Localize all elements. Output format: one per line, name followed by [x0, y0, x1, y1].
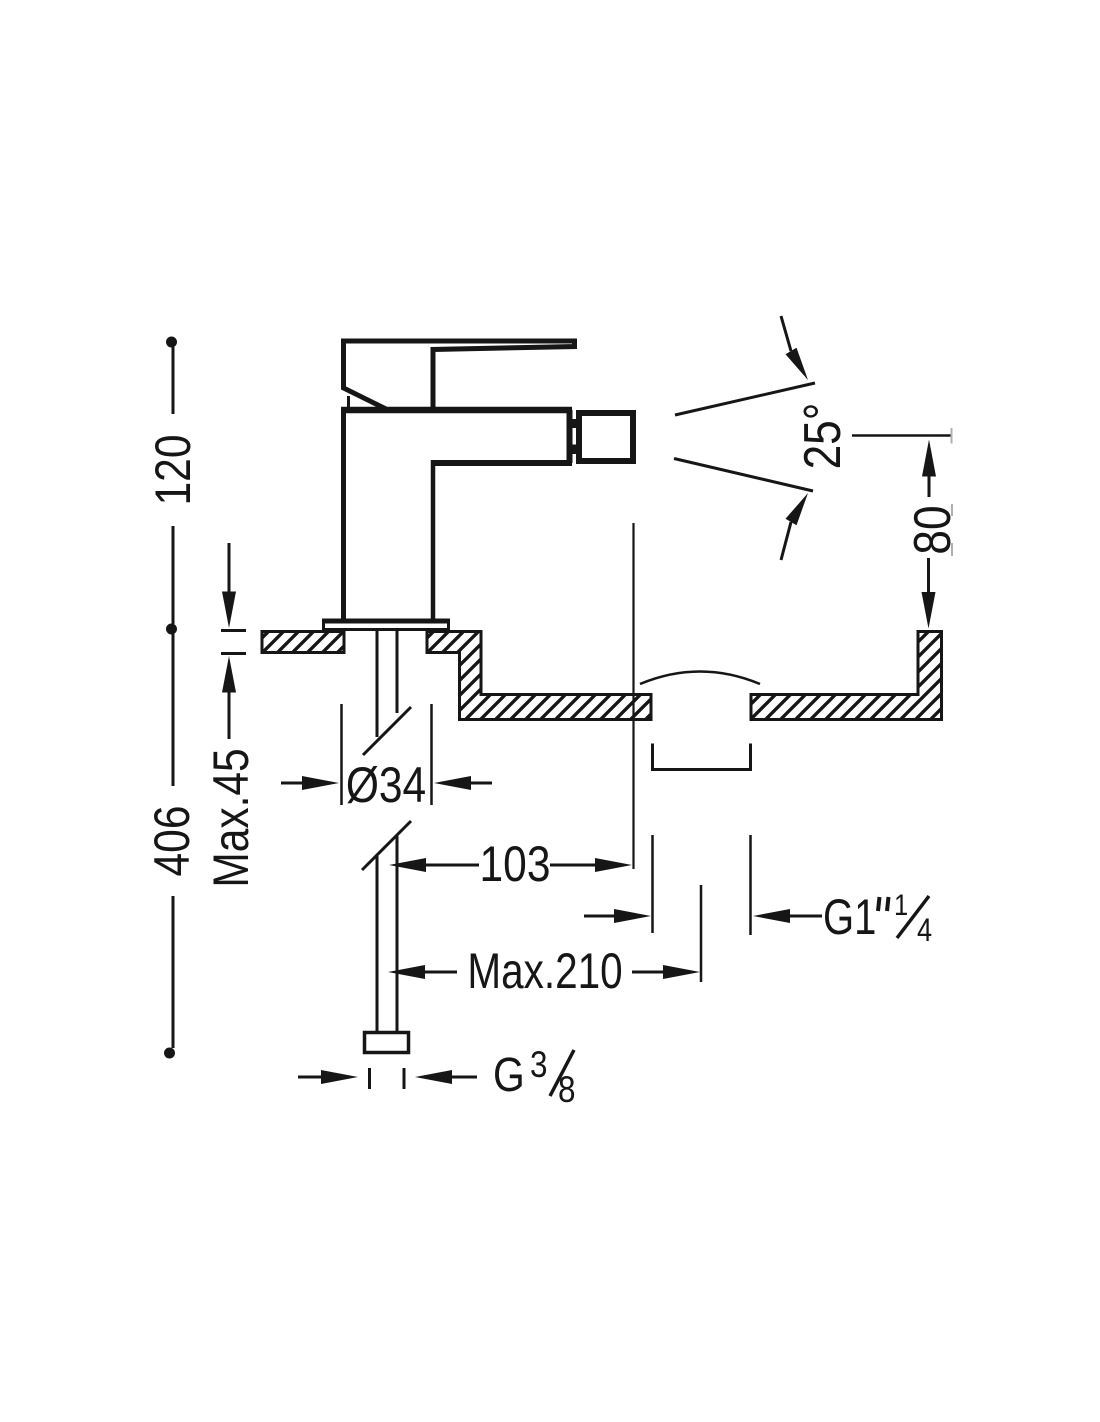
- bidet right wall: [751, 632, 942, 720]
- countertop right step: [427, 632, 651, 720]
- angle 25 lower arrow: [781, 522, 791, 560]
- break mark lower: [362, 821, 411, 870]
- dimension Max.210: [422, 971, 666, 974]
- body inner vertical: [431, 460, 436, 620]
- dimension O34: [342, 704, 432, 805]
- svg-text:Ø34: Ø34: [346, 757, 426, 813]
- faucet body top edge: [341, 407, 572, 414]
- dimension 103: [423, 864, 599, 867]
- dot bottom: [164, 1048, 175, 1059]
- dimension 120/406 chain line: [172, 347, 175, 1048]
- angle 25 lower line: [674, 459, 813, 492]
- drain bracket: [653, 744, 751, 770]
- svg-text:80: 80: [904, 505, 962, 554]
- spray center line: [632, 523, 634, 869]
- break mark upper: [363, 707, 411, 755]
- dimension G 3/8: [298, 1076, 324, 1079]
- supply pipe right: [396, 631, 399, 1031]
- aerator nubs: [572, 419, 579, 428]
- dimension G1 1/4: [653, 835, 751, 935]
- faucet handle: [344, 341, 575, 407]
- svg-text:3: 3: [530, 1045, 547, 1086]
- svg-text:25°: 25°: [794, 403, 852, 470]
- base plate: [324, 621, 449, 630]
- angle 25 upper line: [675, 383, 815, 415]
- dot middle: [166, 624, 177, 635]
- dimension 80 reference line: [852, 434, 951, 437]
- svg-text:103: 103: [480, 836, 551, 892]
- svg-text:4: 4: [917, 913, 932, 949]
- spout bottom edge: [433, 460, 572, 466]
- label G1"1/4: [823, 888, 932, 948]
- pipe nut: [365, 1033, 409, 1053]
- svg-text:Max.45: Max.45: [203, 748, 259, 887]
- dimension 80 vertical: [927, 474, 931, 594]
- svg-text:Max.210: Max.210: [467, 943, 622, 999]
- svg-text:120: 120: [145, 435, 201, 506]
- svg-text:G: G: [493, 1049, 525, 1102]
- faucet body left edge: [341, 407, 346, 619]
- svg-text:G1: G1: [823, 889, 876, 945]
- supply pipe left: [376, 631, 379, 1031]
- handle wedge diagonal: [344, 384, 387, 409]
- aerator: [579, 413, 633, 461]
- spout right edge: [567, 410, 573, 463]
- dimension Max.45 arrows: [221, 543, 246, 739]
- svg-text:1: 1: [894, 888, 908, 921]
- angle 25 upper arrow: [781, 316, 791, 351]
- water arc: [640, 672, 760, 685]
- svg-text:8: 8: [558, 1070, 575, 1111]
- dot top: [166, 337, 177, 348]
- handle seam: [347, 396, 350, 409]
- countertop left slab: [262, 632, 344, 653]
- svg-text:406: 406: [144, 806, 200, 877]
- label G 3/8: [493, 1045, 575, 1111]
